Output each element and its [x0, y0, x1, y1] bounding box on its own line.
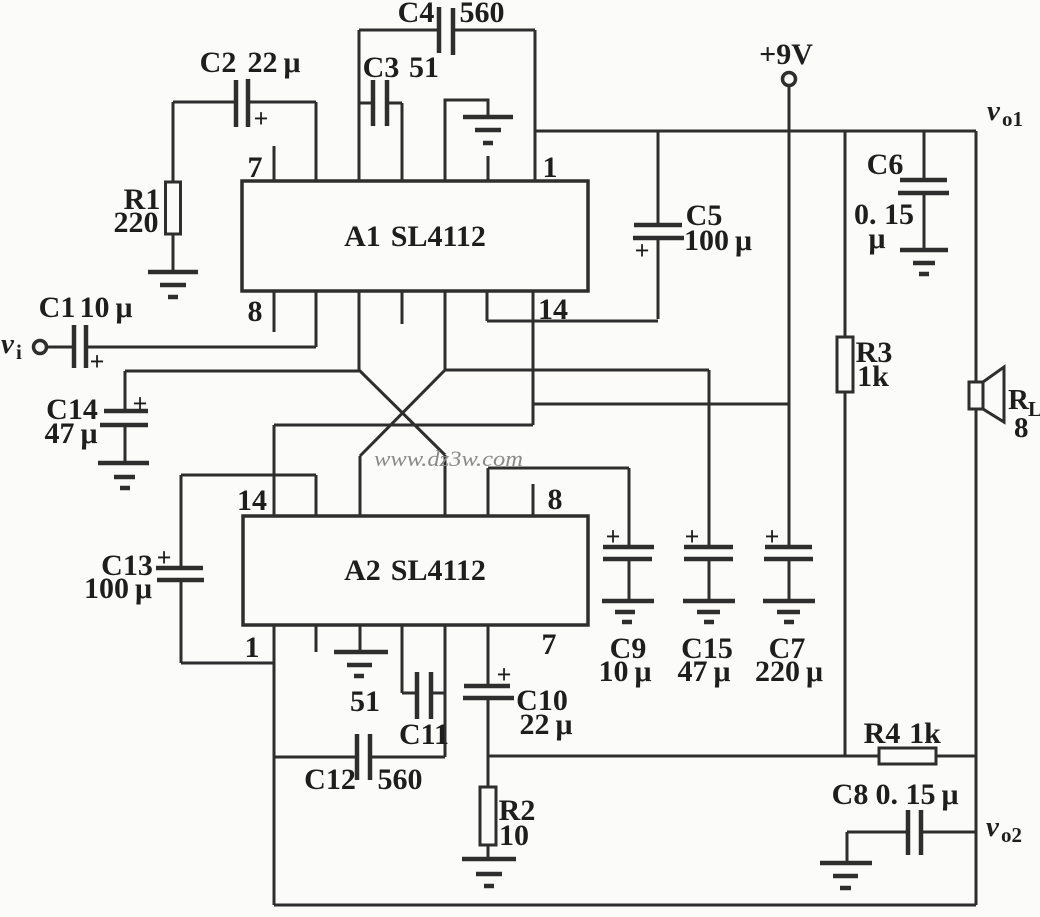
svg-text:220: 220 — [114, 206, 159, 239]
svg-text:A1 SL4112: A1 SL4112 — [344, 220, 486, 253]
svg-text:+: + — [254, 104, 269, 133]
svg-text:R4: R4 — [864, 717, 901, 750]
svg-text:+: + — [765, 522, 780, 551]
svg-text:C12: C12 — [304, 763, 356, 796]
svg-text:C2: C2 — [200, 46, 237, 79]
svg-text:μ: μ — [868, 222, 885, 255]
svg-text:C4: C4 — [398, 0, 435, 29]
svg-text:+9V: +9V — [759, 38, 813, 71]
svg-text:C8: C8 — [832, 778, 869, 811]
svg-text:+: + — [133, 389, 148, 418]
svg-text:14: 14 — [237, 484, 267, 517]
svg-text:100 μ: 100 μ — [684, 224, 752, 257]
svg-text:47 μ: 47 μ — [677, 655, 730, 688]
svg-text:1k: 1k — [909, 717, 941, 750]
svg-text:51: 51 — [350, 685, 380, 718]
svg-text:0. 15 μ: 0. 15 μ — [875, 778, 958, 811]
svg-text:+: + — [635, 236, 650, 265]
svg-text:o1: o1 — [1002, 107, 1023, 131]
svg-text:o2: o2 — [1001, 823, 1022, 847]
svg-text:7: 7 — [248, 151, 263, 184]
svg-text:1: 1 — [543, 151, 558, 184]
svg-text:v: v — [986, 811, 1000, 843]
svg-text:v: v — [1, 328, 15, 360]
svg-text:1k: 1k — [857, 360, 889, 393]
svg-text:1: 1 — [245, 631, 260, 664]
svg-text:10 μ: 10 μ — [79, 291, 132, 324]
svg-text:47 μ: 47 μ — [44, 417, 97, 450]
svg-text:i: i — [16, 340, 22, 364]
svg-text:+: + — [606, 522, 621, 551]
svg-text:+: + — [90, 347, 105, 376]
svg-text:560: 560 — [378, 763, 423, 796]
svg-text:C6: C6 — [867, 148, 904, 181]
svg-text:C3: C3 — [363, 51, 400, 84]
svg-text:v: v — [987, 95, 1001, 127]
svg-text:8: 8 — [548, 483, 563, 516]
svg-text:www.dz3w.com: www.dz3w.com — [374, 446, 523, 471]
svg-text:560: 560 — [460, 0, 505, 29]
svg-text:7: 7 — [542, 628, 557, 661]
svg-text:L: L — [1028, 397, 1040, 421]
svg-text:C11: C11 — [399, 718, 449, 751]
svg-text:100 μ: 100 μ — [84, 572, 152, 605]
svg-text:8: 8 — [248, 295, 263, 328]
svg-text:220 μ: 220 μ — [755, 655, 823, 688]
svg-text:51: 51 — [409, 51, 439, 84]
svg-text:+: + — [157, 543, 172, 572]
svg-text:22 μ: 22 μ — [247, 46, 300, 79]
svg-text:10 μ: 10 μ — [598, 655, 651, 688]
svg-text:8: 8 — [1014, 412, 1029, 444]
svg-text:22 μ: 22 μ — [519, 708, 572, 741]
svg-text:+: + — [685, 522, 700, 551]
svg-text:10: 10 — [499, 819, 529, 852]
svg-text:14: 14 — [538, 293, 568, 326]
svg-text:C1: C1 — [39, 291, 76, 324]
svg-text:A2 SL4112: A2 SL4112 — [344, 554, 486, 587]
svg-text:+: + — [497, 660, 512, 689]
